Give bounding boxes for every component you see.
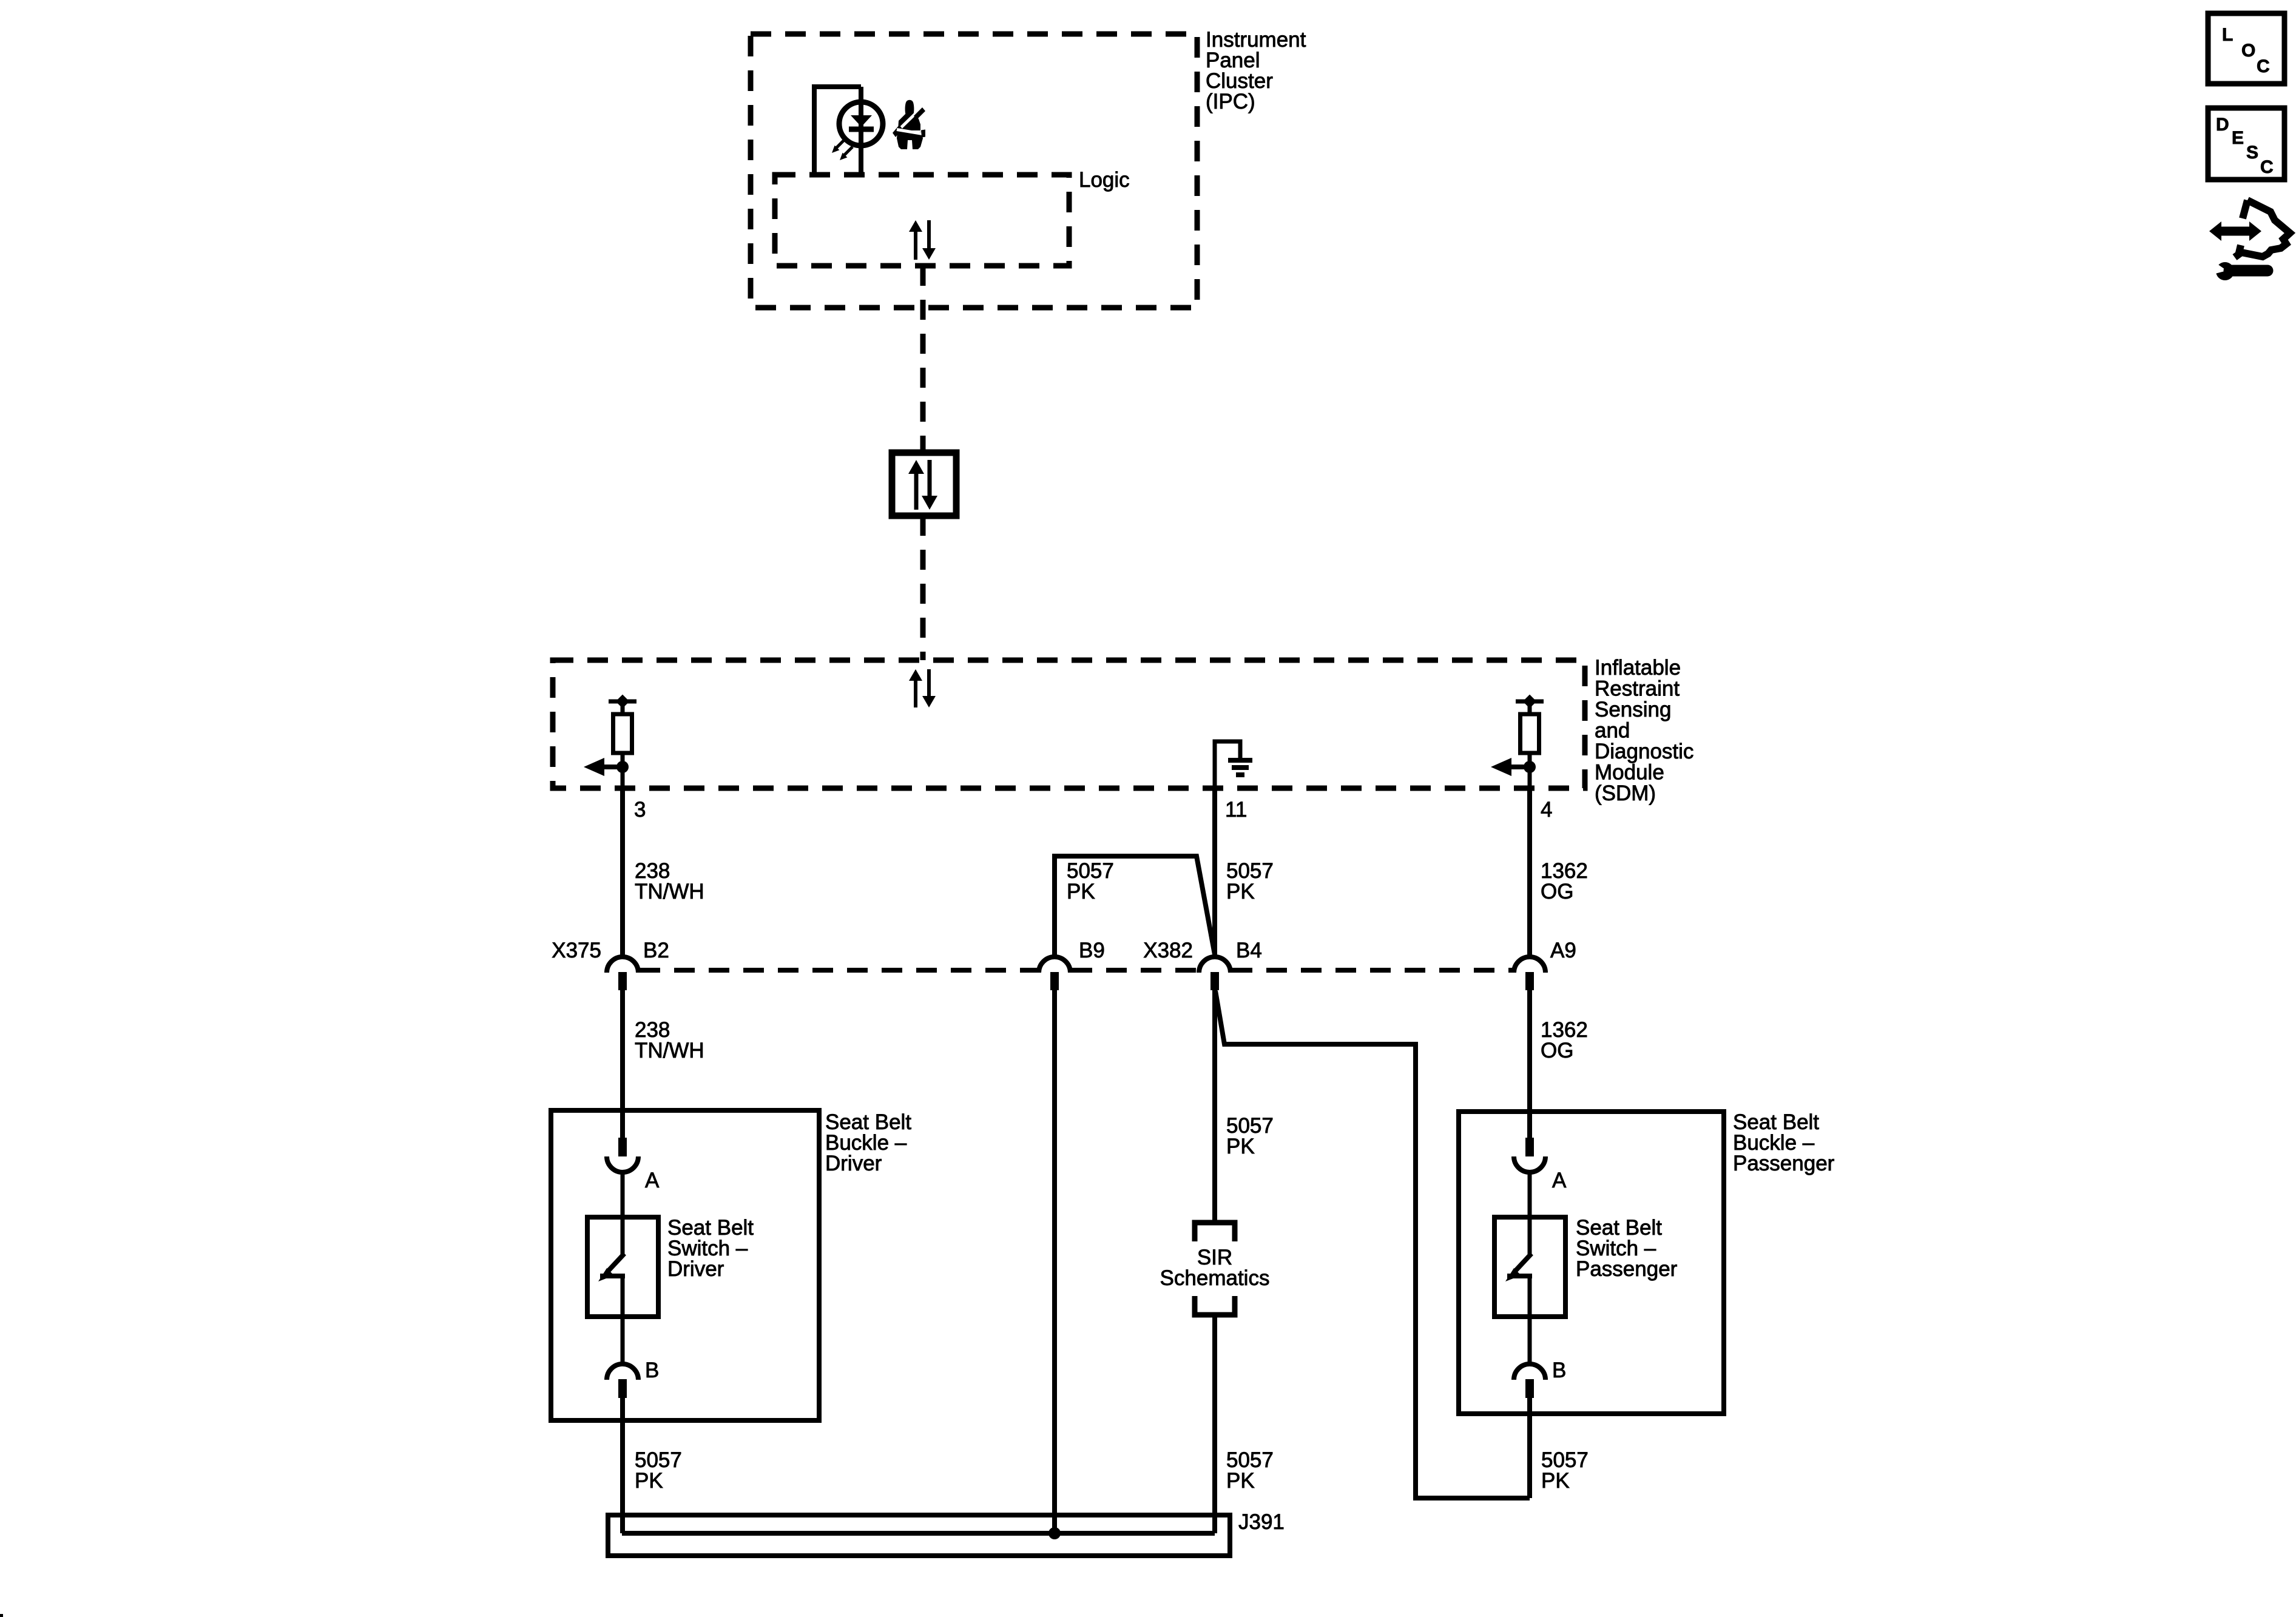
svg-text:PK: PK xyxy=(1541,1469,1570,1493)
Instrument Panel Cluster (IPC) box xyxy=(751,34,1197,308)
svg-text:B2: B2 xyxy=(643,939,669,962)
wire 1362 OG (pin 4 to A9) xyxy=(1527,788,1532,957)
serial data wire (dashed) upper xyxy=(920,266,926,453)
svg-text:Diagnostic: Diagnostic xyxy=(1595,740,1693,763)
svg-text:PK: PK xyxy=(635,1469,663,1493)
wire 5057 PK (passenger B down) xyxy=(1527,1397,1532,1498)
svg-text:A9: A9 xyxy=(1550,939,1576,962)
wire 5057 PK (SIR to J391) xyxy=(1212,1315,1217,1533)
logic serial arrows xyxy=(909,220,936,260)
svg-text:3: 3 xyxy=(634,798,646,822)
wire 5057 PK (B9 down to J391) xyxy=(1052,990,1057,1533)
svg-text:Passenger: Passenger xyxy=(1576,1257,1678,1281)
svg-text:A: A xyxy=(1552,1169,1567,1192)
connector X375 B2 xyxy=(607,957,638,990)
svg-text:11: 11 xyxy=(1225,798,1247,822)
svg-text:PK: PK xyxy=(1226,1135,1255,1158)
svg-text:C: C xyxy=(2260,157,2274,177)
serial data wire (dashed) lower xyxy=(920,516,926,660)
wire 238 TN/WH (B2 to driver buckle) xyxy=(620,990,625,1138)
svg-text:C: C xyxy=(2257,56,2270,76)
svg-text:Passenger: Passenger xyxy=(1733,1152,1835,1175)
passenger pin B xyxy=(1514,1364,1545,1398)
svg-text:Driver: Driver xyxy=(667,1257,724,1281)
connector X382 B4 xyxy=(1199,957,1231,990)
svg-text:B4: B4 xyxy=(1236,939,1262,962)
SDM internal resistor (passenger input) xyxy=(1491,695,1544,788)
LED light arrows xyxy=(832,140,853,160)
svg-text:and: and xyxy=(1595,719,1630,743)
svg-text:S: S xyxy=(2246,143,2258,163)
splice J391 xyxy=(608,1515,1230,1556)
svg-text:TN/WH: TN/WH xyxy=(635,880,704,903)
svg-text:D: D xyxy=(2216,115,2229,135)
passenger pin A xyxy=(1514,1138,1545,1172)
svg-text:A: A xyxy=(645,1169,660,1192)
svg-text:Sensing: Sensing xyxy=(1595,698,1671,721)
svg-text:E: E xyxy=(2232,128,2244,148)
svg-text:J391: J391 xyxy=(1238,1510,1285,1534)
svg-text:PK: PK xyxy=(1226,1469,1255,1493)
DESC nav box xyxy=(2208,108,2284,180)
svg-text:Module: Module xyxy=(1595,761,1664,785)
svg-text:Restraint: Restraint xyxy=(1595,677,1680,701)
svg-text:PK: PK xyxy=(1067,880,1095,903)
svg-text:(SDM): (SDM) xyxy=(1595,781,1656,805)
Inflatable Restraint Sensing and Diagnostic Module (SDM) box xyxy=(553,660,1585,788)
wire 1362 OG (A9 to passenger buckle) xyxy=(1527,990,1532,1138)
svg-text:OG: OG xyxy=(1541,1039,1573,1062)
SIR Schematics callout xyxy=(1195,1223,1235,1315)
serial data link arrows xyxy=(908,460,937,510)
driver pin B xyxy=(607,1364,638,1398)
svg-text:4: 4 xyxy=(1541,798,1552,822)
svg-text:Schematics: Schematics xyxy=(1160,1266,1270,1290)
wire 5057 PK (B9 loop riser) xyxy=(1055,856,1215,957)
in-line connector dashed line xyxy=(640,968,1513,973)
SDM label xyxy=(1595,656,1693,805)
Seat Belt Buckle - Driver box xyxy=(551,1110,819,1420)
Seat Belt Switch - Passenger xyxy=(1494,1172,1565,1364)
wire 5057 PK (driver B to J391) xyxy=(620,1397,625,1533)
svg-text:B: B xyxy=(645,1359,659,1382)
svg-text:PK: PK xyxy=(1226,880,1255,903)
SDM serial arrows xyxy=(909,669,936,707)
svg-text:X382: X382 xyxy=(1143,939,1193,962)
driver pin A xyxy=(607,1138,638,1172)
wire 5057 PK (pin 11 to X382 B4) xyxy=(1212,788,1217,957)
wire 5057 PK (B4 to SIR) xyxy=(1212,990,1217,1222)
svg-text:B9: B9 xyxy=(1079,939,1105,962)
wire 5057 PK (B4 branch to passenger B) xyxy=(1215,991,1530,1498)
Seat Belt Buckle - Passenger box xyxy=(1459,1112,1724,1414)
svg-text:B: B xyxy=(1552,1359,1566,1382)
connector A9 xyxy=(1514,957,1545,990)
svg-text:O: O xyxy=(2241,41,2255,61)
svg-text:TN/WH: TN/WH xyxy=(635,1039,704,1062)
SDM internal ground xyxy=(1215,741,1252,788)
SDM internal resistor (driver input) xyxy=(584,695,636,788)
IPC label xyxy=(1206,28,1306,113)
Seat Belt Switch - Driver xyxy=(587,1172,658,1364)
wire: indicator supply loop xyxy=(814,87,861,175)
Logic box xyxy=(775,175,1069,266)
serial data link box xyxy=(892,453,956,516)
LOC nav box xyxy=(2208,13,2284,84)
svg-text:X375: X375 xyxy=(552,939,601,962)
cross-reference icon xyxy=(2209,200,2290,280)
svg-text:Inflatable: Inflatable xyxy=(1595,656,1681,680)
svg-text:OG: OG xyxy=(1541,880,1573,903)
indicator LED: Safety Belt telltale xyxy=(839,102,883,146)
svg-text:Driver: Driver xyxy=(825,1152,882,1175)
wire 238 TN/WH (pin 3 to X375 B2) xyxy=(620,788,625,957)
svg-text:(IPC): (IPC) xyxy=(1206,90,1255,113)
connector B9 xyxy=(1039,957,1070,990)
seat belt telltale icon xyxy=(893,100,925,149)
page corner mark xyxy=(0,1614,3,1617)
svg-text:L: L xyxy=(2222,25,2233,45)
svg-text:Logic: Logic xyxy=(1079,168,1130,192)
